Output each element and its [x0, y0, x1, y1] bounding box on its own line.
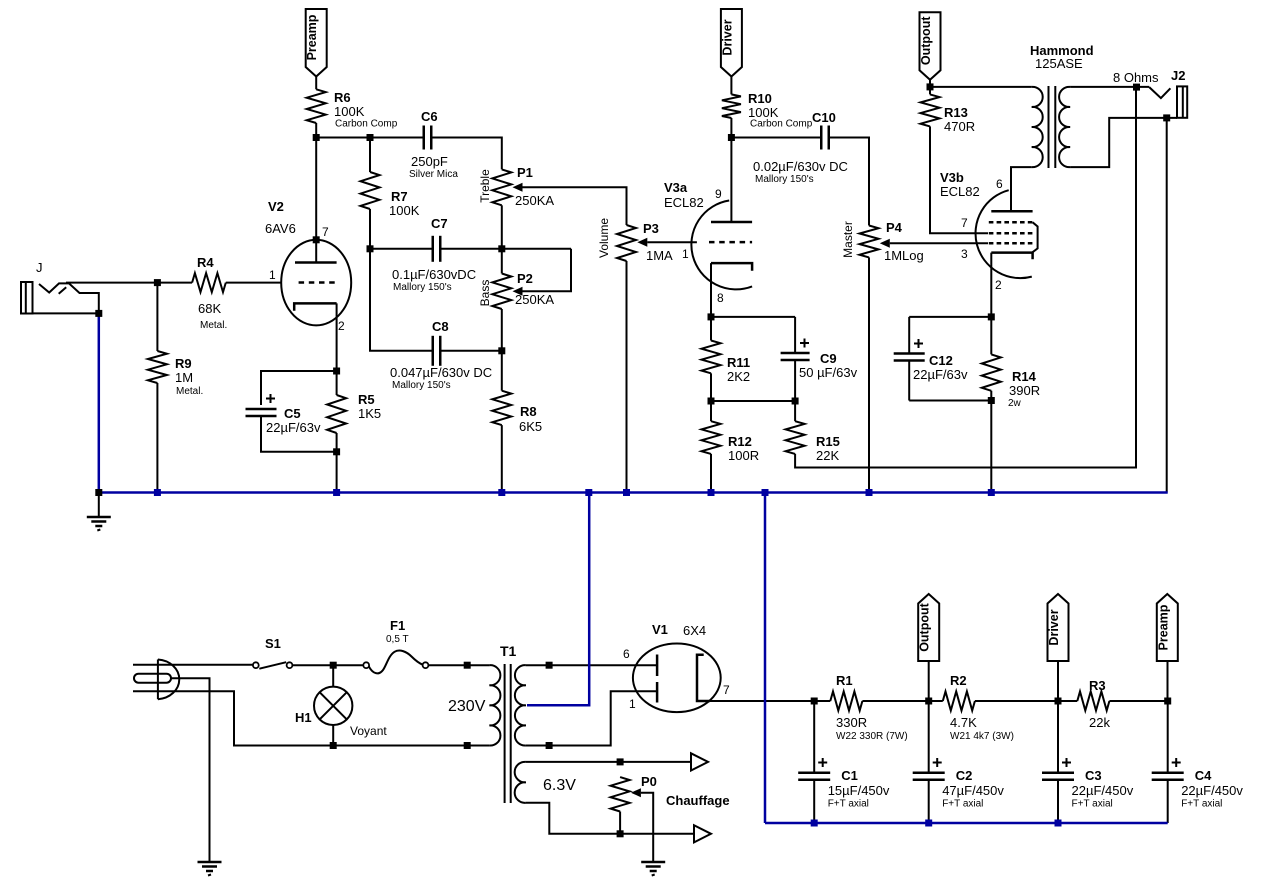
C12 plus sign — [914, 339, 923, 348]
capacitor C7 — [433, 236, 441, 262]
wire C10 to P4 — [829, 138, 869, 226]
V3b cathode — [991, 253, 1032, 260]
wire V3a plate to C10 — [731, 137, 821, 139]
label V3a — [664, 180, 688, 195]
resistor R8 — [492, 391, 511, 425]
svg-text:Master: Master — [841, 221, 855, 258]
V3b pin 6 number — [996, 177, 1003, 191]
resistor R5 — [327, 395, 346, 433]
svg-text:F1: F1 — [390, 618, 405, 633]
capacitor C3 — [1042, 773, 1074, 780]
svg-text:2w: 2w — [1008, 398, 1022, 409]
label Master — [841, 221, 855, 258]
label Mallory C8 — [392, 380, 451, 391]
label P4 — [886, 220, 903, 235]
label Carbon Comp R6 — [335, 119, 398, 130]
wire R9 top stem — [156, 283, 158, 351]
capacitor C12 — [894, 354, 925, 361]
label 47µF/450v C2 — [942, 783, 1004, 798]
svg-text:C8: C8 — [432, 319, 449, 334]
svg-text:Metal.: Metal. — [176, 386, 203, 397]
wire R9 to ground bus — [156, 383, 158, 493]
svg-text:1K5: 1K5 — [358, 406, 381, 421]
wire C6 to P1 top — [431, 138, 502, 170]
svg-text:ECL82: ECL82 — [940, 184, 980, 199]
svg-text:6: 6 — [996, 177, 1003, 191]
svg-text:7: 7 — [961, 216, 968, 230]
ground symbol (heater) — [641, 862, 665, 876]
label 4.7K — [950, 715, 977, 730]
label Silver Mica — [409, 169, 458, 180]
resistor R15 — [786, 421, 805, 454]
junction C2 node — [925, 698, 932, 705]
bus junction P4 — [866, 489, 873, 496]
svg-text:250KA: 250KA — [515, 292, 554, 307]
bus junction R9 — [154, 489, 161, 496]
svg-text:1: 1 — [682, 247, 689, 261]
svg-text:C5: C5 — [284, 406, 301, 421]
label F+T axial C2 — [942, 799, 983, 810]
svg-text:0,5 T: 0,5 T — [386, 634, 409, 645]
V1 plate bar pin 6 — [656, 655, 659, 677]
bus junction P3 — [623, 489, 630, 496]
label Mallory C10 — [755, 174, 814, 185]
svg-text:ECL82: ECL82 — [664, 195, 704, 210]
wire J2 sleeve to ground bus — [1166, 118, 1168, 493]
wire OT primary bottom to V3b plate — [1011, 167, 1032, 190]
junction HT bottom terminal — [546, 742, 553, 749]
svg-text:Outpout: Outpout — [918, 602, 932, 651]
svg-text:100R: 100R — [728, 448, 759, 463]
svg-text:100K: 100K — [389, 203, 420, 218]
wire P0 bottom stem — [619, 812, 621, 834]
svg-text:2: 2 — [995, 278, 1002, 292]
label Chauffage — [666, 793, 730, 808]
svg-text:1: 1 — [269, 268, 276, 282]
resistor R9 — [148, 351, 167, 383]
label R4 — [197, 255, 214, 270]
svg-text:6X4: 6X4 — [683, 623, 706, 638]
wire Driver flag stem — [1057, 661, 1059, 701]
label 2w — [1008, 398, 1022, 409]
label 50uF/63v — [799, 365, 858, 380]
junction R14 bottom — [988, 397, 995, 404]
svg-text:22µF/450v: 22µF/450v — [1072, 783, 1134, 798]
label C1 — [841, 768, 858, 783]
wire OT secondary bottom — [1070, 118, 1177, 167]
mains plug pin neutral — [133, 690, 159, 692]
svg-text:Mallory 150's: Mallory 150's — [755, 174, 814, 185]
wire P1 bottom — [501, 205, 503, 249]
svg-text:Driver: Driver — [1047, 609, 1061, 645]
junction C5/R5 bottom — [333, 448, 340, 455]
input jack J — [21, 282, 99, 314]
wire C5 top — [261, 371, 337, 405]
V1 pin 7 number — [723, 683, 730, 697]
potentiometer P0 — [611, 777, 630, 811]
potentiometer P3 (Volume) — [617, 225, 636, 261]
junction R7 top — [367, 134, 374, 141]
wire C3 bottom stem — [1057, 780, 1059, 823]
label 0.047uF/630v DC — [390, 365, 492, 380]
wire R3 to C4 node — [1109, 700, 1167, 702]
wire R13 to V3b screen — [930, 126, 988, 233]
label R5 — [358, 392, 375, 407]
V2 pin 2 number — [338, 319, 345, 333]
junction HT top terminal — [546, 662, 553, 669]
bus junction HT centre tap drop — [585, 489, 592, 496]
switch S1 contact right — [287, 662, 293, 668]
label 6AV6 — [265, 221, 296, 236]
label 100K R7 — [389, 203, 420, 218]
V3a cathode — [711, 263, 752, 271]
svg-text:Outpout: Outpout — [919, 16, 933, 65]
svg-text:W22 330R (7W): W22 330R (7W) — [836, 731, 908, 742]
capacitor C10 — [821, 126, 829, 150]
wire Preamp flag stem — [1167, 661, 1169, 701]
label 6K5 — [519, 419, 542, 434]
tube V3a envelope arc — [691, 201, 752, 290]
capacitor C8 — [433, 336, 441, 366]
svg-text:C6: C6 — [421, 109, 438, 124]
label 0.1uF/630vDC — [392, 267, 476, 282]
svg-text:390R: 390R — [1009, 383, 1040, 398]
P3 wiper arrow — [637, 238, 647, 247]
svg-text:3: 3 — [961, 247, 968, 261]
label C10 — [812, 110, 836, 125]
wire R1 to R2 — [862, 700, 942, 702]
V3a pin 1 number — [682, 247, 689, 261]
svg-text:22µF/63v: 22µF/63v — [913, 367, 968, 382]
C5 plus sign — [266, 394, 275, 403]
bus junction R5 — [333, 489, 340, 496]
svg-text:S1: S1 — [265, 636, 281, 651]
svg-text:22µF/63v: 22µF/63v — [266, 420, 321, 435]
lamp H1 — [314, 687, 352, 725]
V1 plate bar pin 1 — [656, 682, 659, 703]
label C4 — [1195, 768, 1212, 783]
capacitor C5 — [246, 409, 277, 416]
wire Outpout flag stem — [928, 661, 930, 701]
V3a grid dashed — [709, 241, 752, 244]
svg-text:R14: R14 — [1012, 369, 1037, 384]
mains plug body — [158, 660, 179, 700]
V3b cathode lead (pin 2) — [990, 253, 992, 317]
fuse F1 wiggle — [369, 651, 423, 674]
label 2K2 — [727, 369, 750, 384]
svg-text:R2: R2 — [950, 673, 967, 688]
label R15 — [816, 434, 840, 449]
label 100K R6 — [334, 104, 365, 119]
svg-text:H1: H1 — [295, 710, 312, 725]
svg-text:C1: C1 — [841, 768, 858, 783]
label 100K R10 — [748, 105, 779, 120]
label Bass — [478, 280, 492, 307]
wire R8 top stem — [501, 351, 503, 391]
svg-text:V2: V2 — [268, 199, 284, 214]
filter bus junction C2 — [925, 820, 932, 827]
potentiometer P4 (Master) — [860, 226, 879, 258]
capacitor C9 — [781, 353, 810, 360]
label Volume — [597, 218, 611, 258]
svg-text:C10: C10 — [812, 110, 836, 125]
svg-text:Treble: Treble — [478, 169, 492, 203]
wire P4 wiper to V3b grid — [890, 242, 988, 244]
junction V3b cathode node — [988, 313, 995, 320]
svg-text:R12: R12 — [728, 434, 752, 449]
svg-text:22K: 22K — [816, 448, 839, 463]
wire C12 top — [909, 316, 991, 318]
P4 wiper arrow — [880, 239, 890, 248]
resistor R7 — [361, 172, 380, 209]
wire bus to filter ground (blue) — [764, 493, 767, 824]
label C12 — [929, 353, 953, 368]
V2 cathode — [294, 303, 336, 310]
wire P2 wiper to C7 node — [523, 249, 572, 291]
capacitor C2 — [913, 773, 945, 780]
svg-text:C9: C9 — [820, 351, 837, 366]
resistor R2 — [943, 692, 975, 711]
label F+T axial C3 — [1072, 799, 1113, 810]
svg-text:22µF/450v: 22µF/450v — [1181, 783, 1243, 798]
svg-text:0.1µF/630vDC: 0.1µF/630vDC — [392, 267, 476, 282]
flag Outpout (top) — [919, 12, 941, 80]
svg-text:100K: 100K — [334, 104, 365, 119]
svg-text:6: 6 — [623, 647, 630, 661]
svg-text:C3: C3 — [1085, 768, 1102, 783]
label W22 330R (7W) — [836, 731, 908, 742]
label F1 — [390, 618, 405, 633]
junction V2 envelope top — [313, 236, 320, 243]
label P0 — [641, 774, 657, 789]
svg-text:7: 7 — [322, 225, 329, 239]
svg-text:R10: R10 — [748, 91, 772, 106]
wire C5 bottom — [261, 416, 337, 452]
resistor R13 — [921, 94, 940, 126]
wire C4 top stem — [1167, 701, 1169, 773]
V1 pin 1 number — [629, 697, 636, 711]
C4 plus sign — [1172, 758, 1181, 767]
junction C9 bottom — [792, 398, 799, 405]
label R13 — [944, 105, 968, 120]
label 1MLog — [884, 248, 924, 263]
svg-text:P0: P0 — [641, 774, 657, 789]
wire P0 wiper to ground — [641, 793, 653, 862]
junction C4 node — [1164, 698, 1171, 705]
V2 plate lead / wire to node — [315, 138, 317, 263]
junction C3 node — [1055, 698, 1062, 705]
V3b pin 3 number — [961, 247, 968, 261]
label R14 — [1012, 369, 1037, 384]
wire C1 bottom stem — [813, 780, 815, 823]
capacitor C4 — [1152, 773, 1184, 780]
label 330R — [836, 715, 867, 730]
resistor R14 — [982, 354, 1001, 390]
filter bus junction C1 — [811, 820, 818, 827]
switch S1 contact left — [253, 662, 259, 668]
label 22µF/450v C3 — [1072, 783, 1134, 798]
svg-text:Silver Mica: Silver Mica — [409, 169, 458, 180]
svg-text:C4: C4 — [1195, 768, 1212, 783]
wire C12 bottom stem — [908, 361, 910, 401]
svg-text:W21 4k7 (3W): W21 4k7 (3W) — [950, 731, 1014, 742]
junction H1 bottom — [330, 742, 337, 749]
bus junction R12 — [708, 489, 715, 496]
svg-text:V1: V1 — [652, 622, 668, 637]
svg-text:6AV6: 6AV6 — [265, 221, 296, 236]
svg-text:T1: T1 — [500, 643, 517, 659]
fuse F1 contact right — [423, 662, 429, 668]
label 6.3V — [543, 777, 576, 794]
label R9 — [175, 356, 192, 371]
svg-text:7: 7 — [723, 683, 730, 697]
svg-text:22k: 22k — [1089, 715, 1110, 730]
label P3 — [643, 221, 659, 236]
svg-text:Bass: Bass — [478, 280, 492, 307]
svg-text:V3a: V3a — [664, 180, 688, 195]
junction T1 primary top — [464, 662, 471, 669]
label Voyant — [350, 724, 387, 738]
flag Preamp (top) — [305, 9, 327, 77]
bus junction filter drop — [762, 489, 769, 496]
junction V3a cathode node — [708, 313, 715, 320]
wire C2 bottom stem — [928, 780, 930, 823]
junction J2 sleeve node — [1163, 114, 1170, 121]
label V3b — [940, 170, 964, 185]
label R8 — [520, 404, 537, 419]
label 0,5 T — [386, 634, 409, 645]
svg-text:68K: 68K — [198, 301, 221, 316]
V3b grid g2 dashed — [989, 232, 1033, 235]
label 15µF/450v C1 — [828, 783, 890, 798]
label Metal. — [200, 320, 227, 331]
svg-text:R6: R6 — [334, 90, 351, 105]
junction Outpout node — [927, 83, 934, 90]
svg-text:R13: R13 — [944, 105, 968, 120]
label T1 — [500, 643, 517, 659]
wire Outpout node to OT primary — [930, 86, 1032, 88]
wire R6 bottom stem — [315, 123, 317, 138]
label R11 — [727, 355, 750, 370]
C2 plus sign — [933, 758, 942, 767]
svg-text:J: J — [36, 260, 43, 275]
junction P2/C8/R8 — [498, 347, 505, 354]
wire R2 to R3 — [975, 700, 1077, 702]
V3a plate lead — [730, 138, 732, 223]
svg-text:Mallory 150's: Mallory 150's — [392, 380, 451, 391]
wire R5 bottom — [336, 433, 338, 493]
wire C12 bottom — [909, 400, 991, 402]
jack J2 body — [1177, 86, 1187, 117]
label Mallory C7 — [393, 282, 452, 293]
label P1 — [517, 165, 533, 180]
OT secondary winding — [1059, 87, 1070, 167]
wire R15 bottom — [795, 87, 1136, 467]
svg-text:F+T axial: F+T axial — [942, 799, 983, 810]
label 250KA P1 — [515, 193, 554, 208]
svg-text:15µF/450v: 15µF/450v — [828, 783, 890, 798]
resistor R11 — [702, 341, 721, 374]
svg-text:Volume: Volume — [597, 218, 611, 258]
label 22k — [1089, 715, 1110, 730]
label C7 — [431, 216, 448, 231]
potentiometer P1 (Treble) — [492, 169, 511, 205]
resistor R4 — [192, 273, 226, 292]
svg-text:8 Ohms: 8 Ohms — [1113, 70, 1159, 85]
svg-text:250KA: 250KA — [515, 193, 554, 208]
junction jack/R9/R4 — [154, 279, 161, 286]
wire P2 top stem — [501, 249, 503, 274]
label R12 — [728, 434, 752, 449]
wire flag to R10 — [730, 77, 732, 95]
wire R15 top stem — [794, 401, 796, 421]
mains plug pin live — [133, 664, 159, 666]
label 390R — [1009, 383, 1040, 398]
junction T1 primary bottom — [464, 742, 471, 749]
wire HT top to V1 plate — [526, 664, 657, 666]
V3b pin 2 number — [995, 278, 1002, 292]
wire HT bottom to V1 plate 2 — [526, 691, 657, 745]
label R1 — [836, 673, 853, 688]
T1 core lines — [505, 664, 511, 803]
label P2 — [517, 271, 533, 286]
V2 plate bar — [295, 261, 337, 264]
V2 grid dashed — [299, 281, 336, 284]
junction P0 bottom — [617, 830, 624, 837]
svg-text:Carbon Comp: Carbon Comp — [335, 119, 398, 130]
svg-text:4.7K: 4.7K — [950, 715, 977, 730]
V3a cathode lead (pin 8) — [710, 263, 712, 317]
wire S1 to F1 — [292, 664, 363, 666]
T1 heater winding 6.3V — [515, 762, 526, 803]
svg-text:125ASE: 125ASE — [1035, 56, 1083, 71]
V3a plate bar — [711, 221, 752, 224]
label Metal. R9 — [176, 386, 203, 397]
T1 HT secondary winding — [515, 665, 526, 745]
svg-text:1M: 1M — [175, 370, 193, 385]
label F+T axial C4 — [1181, 799, 1222, 810]
svg-text:P4: P4 — [886, 220, 903, 235]
svg-text:P2: P2 — [517, 271, 533, 286]
filter bus junction C3 — [1055, 820, 1062, 827]
wire flag to R6 — [315, 77, 317, 90]
label H1 — [295, 710, 312, 725]
V3a pin 8 number — [717, 291, 724, 305]
wire R12 top stem — [710, 401, 712, 421]
label 22µF/450v C4 — [1181, 783, 1243, 798]
flag Preamp (bottom) — [1156, 594, 1178, 661]
wire C8 left branch — [370, 249, 433, 351]
svg-text:R4: R4 — [197, 255, 214, 270]
resistor R10 — [722, 94, 741, 118]
label ECL82 V3b — [940, 184, 980, 199]
wire R14 top stem — [990, 317, 992, 355]
junction R6/V2/C6 node — [313, 134, 320, 141]
svg-text:Voyant: Voyant — [350, 724, 387, 738]
wire C2 top stem — [928, 701, 930, 773]
wire R7 bottom stem — [369, 209, 371, 249]
svg-text:Preamp: Preamp — [1156, 604, 1170, 650]
svg-text:C7: C7 — [431, 216, 448, 231]
label J2 — [1171, 68, 1185, 83]
junction J2 tip node — [1133, 84, 1140, 91]
svg-text:0.047µF/630v DC: 0.047µF/630v DC — [390, 365, 492, 380]
flag Driver (bottom) — [1047, 594, 1069, 661]
wire C4 bottom stem — [1167, 780, 1169, 823]
V3b g3-cathode bracket — [1032, 222, 1038, 252]
junction P1/P2/C7 — [498, 245, 505, 252]
svg-text:J2: J2 — [1171, 68, 1185, 83]
